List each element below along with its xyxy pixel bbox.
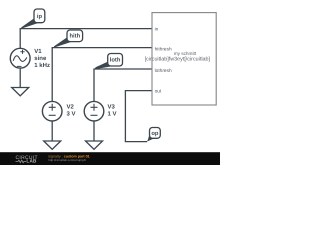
- svg-text:lothresh: lothresh: [155, 68, 172, 74]
- V3 label: [108, 103, 117, 117]
- wire net ip: V1 top to part IN pin: [20, 29, 152, 49]
- svg-text:ip: ip: [37, 13, 43, 20]
- svg-text:in: in: [155, 26, 159, 32]
- svg-text:hithresh: hithresh: [155, 47, 172, 53]
- wire V3 bottom to ground: [93, 121, 95, 141]
- wire V2 bottom to ground: [51, 121, 53, 141]
- voltage source V2 (DC): [42, 101, 62, 121]
- svg-text:loth: loth: [110, 57, 121, 64]
- svg-text:my schmitt: my schmitt: [174, 51, 197, 56]
- V1 label: [34, 48, 50, 69]
- voltage source V3 (DC): [84, 101, 104, 121]
- ground G3 (under V3): [86, 141, 103, 149]
- wire net op: part OUT pin to op flag: [125, 91, 152, 142]
- svg-text:3 V: 3 V: [67, 110, 76, 117]
- svg-text:hith: hith: [69, 33, 80, 40]
- svg-text:1 V: 1 V: [108, 110, 117, 117]
- CircuitLab logo text CIRCUIT: [16, 155, 38, 161]
- V2 label: [67, 103, 76, 117]
- svg-text:signalty : custom part 01: signalty : custom part 01: [48, 154, 89, 159]
- footer watermark bar: [0, 152, 220, 165]
- wire V1 bottom to ground: [19, 69, 21, 88]
- svg-text:[circuitlab]fw3eyt[/circuitlab: [circuitlab]fw3eyt[/circuitlab]: [145, 56, 210, 62]
- wire net hith: V2 top to part HITHRESH pin: [52, 48, 152, 102]
- part value [circuitlab]fw3eyt[/circuitlab]: [145, 56, 210, 62]
- flag loth: [95, 54, 123, 70]
- voltage source V1 (sine): [10, 48, 30, 68]
- flag hith: [53, 30, 82, 48]
- svg-text:V2: V2: [67, 103, 75, 110]
- ground G1 (under V1): [12, 88, 29, 96]
- CircuitLab logo resistor + LAB: [16, 160, 26, 163]
- flag op: [146, 128, 160, 142]
- svg-text:LAB: LAB: [26, 158, 36, 164]
- flag ip: [21, 9, 45, 29]
- svg-text:http://circuitlab.com/c/nqmp4/: http://circuitlab.com/c/nqmp4/: [48, 159, 86, 163]
- wire net loth: V3 top to part LOTHRESH pin: [94, 69, 152, 102]
- footer url line: [48, 159, 86, 163]
- svg-text:sine: sine: [34, 55, 47, 62]
- custom part U1 "my schmitt" box: [152, 13, 216, 105]
- svg-text:out: out: [155, 88, 162, 94]
- ground G2 (under V2): [44, 141, 61, 149]
- svg-text:1 kHz: 1 kHz: [34, 62, 50, 69]
- svg-text:op: op: [151, 131, 159, 137]
- footer title line: [48, 154, 89, 159]
- svg-text:V1: V1: [34, 48, 42, 55]
- svg-text:V3: V3: [108, 103, 116, 110]
